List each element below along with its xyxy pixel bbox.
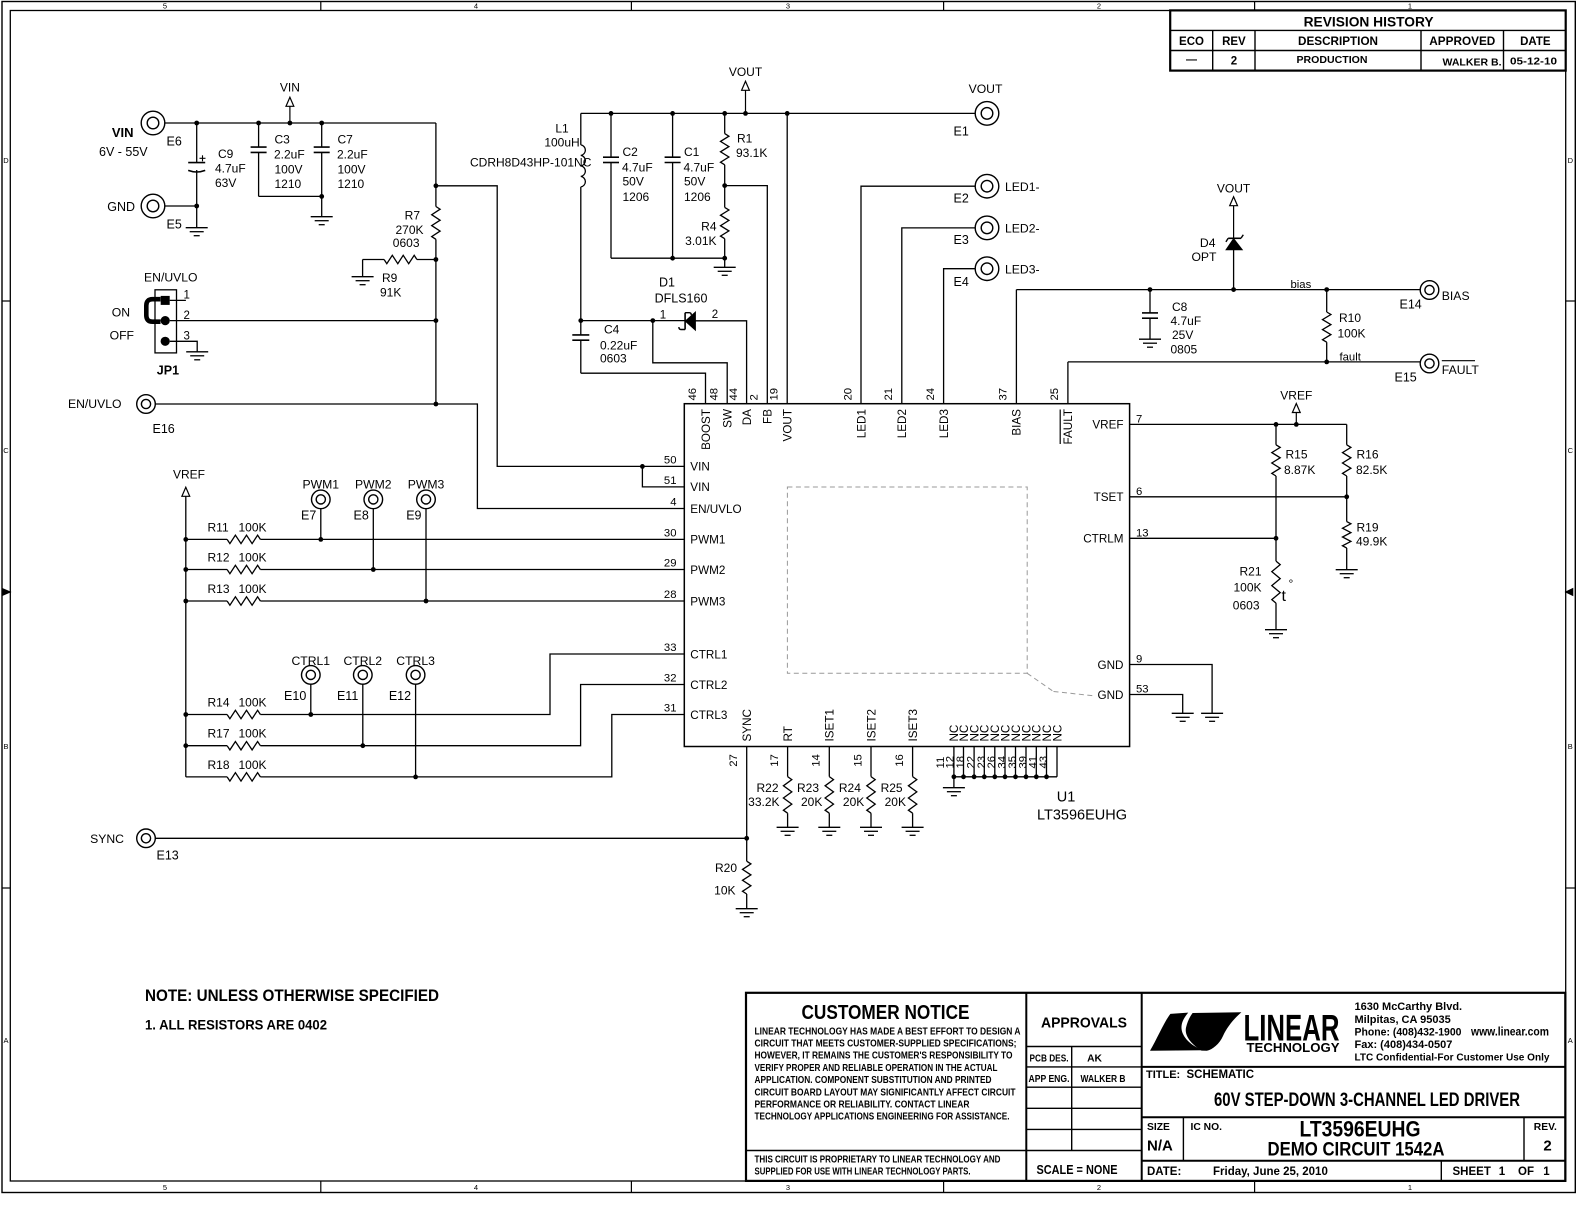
svg-text:—: — — [1186, 54, 1197, 66]
wire CTRL3 row to pin 31 — [260, 715, 684, 777]
svg-text:E1: E1 — [954, 125, 969, 139]
junction dot E10 row — [308, 712, 313, 717]
svg-text:2: 2 — [184, 310, 190, 322]
svg-text:25V: 25V — [1172, 328, 1193, 342]
resistor R23 — [828, 747, 830, 777]
junction dot C9 bottom — [194, 204, 199, 209]
wire E9 drop — [425, 509, 427, 601]
capacitor C3 — [258, 123, 260, 147]
svg-text:GND: GND — [1098, 689, 1124, 702]
resistor R15 — [1275, 424, 1277, 444]
svg-text:43: 43 — [1038, 756, 1050, 769]
svg-text:DA: DA — [741, 409, 754, 425]
junction dot R21 top — [1274, 536, 1279, 541]
terminal E1 VOUT — [975, 102, 999, 126]
svg-text:E13: E13 — [157, 849, 179, 863]
svg-text:R21: R21 — [1239, 565, 1261, 579]
svg-text:EN/UVLO: EN/UVLO — [144, 271, 198, 285]
terminal E16 EN/UVLO — [137, 395, 156, 414]
svg-text:8.87K: 8.87K — [1284, 463, 1315, 477]
wire E4 to pin 24 — [944, 269, 976, 404]
svg-text:VIN: VIN — [690, 461, 709, 474]
svg-text:PRODUCTION: PRODUCTION — [1297, 54, 1368, 66]
revision history table — [1170, 10, 1566, 70]
svg-text:2: 2 — [749, 394, 761, 400]
wire VOUT rail — [581, 112, 975, 114]
svg-text:1: 1 — [1543, 1166, 1550, 1178]
svg-text:R1: R1 — [737, 132, 753, 146]
svg-text:www.linear.com: www.linear.com — [1470, 1026, 1549, 1038]
svg-text:2.2uF: 2.2uF — [337, 148, 368, 162]
junction dot R4 bottom — [722, 256, 727, 261]
wire R9 to ground — [362, 260, 364, 277]
svg-text:LINEAR TECHNOLOGY HAS MADE A B: LINEAR TECHNOLOGY HAS MADE A BEST EFFORT… — [755, 1026, 1021, 1037]
svg-text:CTRLM: CTRLM — [1083, 533, 1123, 546]
power symbol VREF left — [182, 487, 190, 496]
svg-text:1630 McCarthy Blvd.: 1630 McCarthy Blvd. — [1355, 1001, 1463, 1013]
wire GND pin53 — [1130, 695, 1183, 714]
svg-text:0805: 0805 — [1171, 342, 1198, 356]
svg-text:1: 1 — [660, 310, 666, 322]
svg-text:LED2-: LED2- — [1005, 222, 1040, 236]
svg-text:D: D — [3, 156, 9, 165]
svg-text:WALKER B.: WALKER B. — [1443, 56, 1502, 68]
svg-text:1206: 1206 — [684, 190, 711, 204]
svg-text:VOUT: VOUT — [969, 82, 1003, 96]
wire VREF left vertical — [185, 496, 187, 777]
svg-text:0603: 0603 — [393, 236, 420, 250]
resistor R14 — [186, 714, 227, 716]
resistor R10 — [1326, 290, 1328, 312]
inductor L1 — [580, 113, 582, 144]
svg-text:44: 44 — [728, 388, 740, 401]
power symbol VREF right — [1295, 413, 1297, 425]
svg-text:100V: 100V — [338, 163, 366, 177]
svg-text:48: 48 — [709, 388, 721, 401]
svg-text:6V - 55V: 6V - 55V — [99, 145, 148, 159]
svg-text:VREF: VREF — [1092, 419, 1123, 432]
resistor R22 — [787, 747, 789, 777]
svg-text:E7: E7 — [301, 509, 316, 523]
wire VREF pin7 rail — [1130, 423, 1347, 425]
svg-text:2: 2 — [1231, 56, 1237, 68]
svg-text:7: 7 — [1136, 413, 1142, 425]
svg-text:100uH: 100uH — [544, 136, 579, 150]
svg-text:1: 1 — [1408, 1183, 1412, 1192]
svg-text:Phone: (408)432-1900: Phone: (408)432-1900 — [1355, 1026, 1462, 1038]
ground below R4 — [714, 266, 736, 268]
wire E3 to pin 21 — [902, 228, 975, 404]
svg-text:1: 1 — [1408, 2, 1412, 11]
wire CTRL2 row to pin 32 — [260, 685, 684, 746]
svg-text:100K: 100K — [239, 520, 267, 534]
wire C3 bottom to C7 bottom — [259, 195, 322, 197]
svg-text:PWM3: PWM3 — [408, 477, 445, 491]
svg-text:FAULT: FAULT — [1062, 409, 1075, 445]
wire E8 drop — [372, 509, 374, 570]
svg-text:20K: 20K — [801, 795, 822, 809]
svg-text:CDRH8D43HP-101NC: CDRH8D43HP-101NC — [470, 156, 592, 170]
svg-text:SYNC: SYNC — [741, 709, 754, 741]
svg-text:82.5K: 82.5K — [1356, 463, 1387, 477]
svg-text:R14: R14 — [208, 696, 230, 710]
svg-text:APPROVALS: APPROVALS — [1041, 1014, 1127, 1031]
svg-text:NC: NC — [1051, 725, 1064, 742]
svg-text:C8: C8 — [1172, 300, 1188, 314]
diode D4 zener OPT — [1226, 239, 1242, 250]
svg-text:B: B — [3, 742, 8, 751]
wire VIN vertical to EN/UVLO row — [435, 321, 437, 404]
junction dot R10 fault — [1324, 360, 1329, 365]
svg-text:VIN: VIN — [280, 81, 300, 95]
wire JP1 pin1 stub — [170, 299, 186, 301]
svg-text:AK: AK — [1087, 1053, 1102, 1064]
svg-text:Friday, June 25, 2010: Friday, June 25, 2010 — [1213, 1166, 1328, 1178]
svg-text:R23: R23 — [797, 781, 819, 795]
terminal E10 CTRL1 — [302, 666, 321, 685]
wire E11 drop — [362, 684, 364, 746]
svg-text:49.9K: 49.9K — [1356, 534, 1387, 548]
svg-text:33.2K: 33.2K — [748, 795, 779, 809]
svg-text:R9: R9 — [382, 271, 398, 285]
resistor R16 — [1346, 424, 1348, 444]
svg-text:E4: E4 — [954, 275, 969, 289]
svg-text:SW: SW — [722, 409, 735, 428]
approvals box — [1026, 1046, 1141, 1048]
svg-text:15: 15 — [852, 754, 864, 767]
svg-text:CTRL3: CTRL3 — [396, 654, 435, 668]
svg-text:SHEET: SHEET — [1453, 1166, 1491, 1178]
svg-text:TSET: TSET — [1094, 491, 1124, 504]
wire C9 to ground — [196, 206, 198, 228]
svg-text:20K: 20K — [843, 795, 864, 809]
svg-text:APP ENG.: APP ENG. — [1029, 1074, 1070, 1085]
junction dot R7 R9 — [434, 257, 439, 262]
svg-text:GND: GND — [1098, 659, 1124, 672]
resistor R11 — [186, 538, 227, 540]
svg-text:4: 4 — [474, 2, 478, 11]
svg-text:VOUT: VOUT — [1217, 181, 1251, 195]
svg-text:OPT: OPT — [1191, 250, 1217, 264]
terminal E5 GND — [141, 194, 165, 218]
svg-text:C2: C2 — [623, 145, 639, 159]
svg-text:14: 14 — [811, 754, 823, 767]
svg-text:2: 2 — [712, 309, 718, 321]
svg-text:5: 5 — [163, 2, 167, 11]
svg-text:3: 3 — [786, 1183, 790, 1192]
wire VIN vertical to JP1 row — [435, 260, 437, 321]
svg-text:270K: 270K — [395, 223, 423, 237]
svg-text:E15: E15 — [1395, 371, 1417, 385]
terminal E11 CTRL2 — [354, 666, 373, 685]
ground below R23 — [818, 826, 840, 828]
wire E6 to VIN rail — [165, 122, 197, 124]
svg-text:ISET1: ISET1 — [824, 709, 837, 741]
svg-text:VERIFY PROPER AND RELIABLE OPE: VERIFY PROPER AND RELIABLE OPERATION IN … — [755, 1063, 998, 1074]
svg-text:SCALE = NONE: SCALE = NONE — [1037, 1163, 1118, 1177]
svg-text:GND: GND — [107, 200, 135, 214]
title row — [1142, 1116, 1566, 1118]
svg-text:ISET2: ISET2 — [865, 709, 878, 741]
svg-text:B: B — [1568, 742, 1573, 751]
svg-text:E10: E10 — [284, 689, 306, 703]
svg-text:C9: C9 — [218, 147, 234, 161]
junction dot R11 — [183, 537, 188, 542]
junction dot JP1 pin2 EN node — [434, 318, 439, 323]
wire FB node to pin 2 — [725, 186, 768, 404]
svg-text:LT3596EUHG: LT3596EUHG — [1300, 1117, 1421, 1142]
svg-text:BIAS: BIAS — [1442, 289, 1470, 303]
svg-text:Milpitas, CA 95035: Milpitas, CA 95035 — [1355, 1014, 1451, 1026]
terminal E8 PWM2 — [364, 490, 383, 509]
svg-text:CTRL3: CTRL3 — [690, 709, 727, 722]
svg-text:E12: E12 — [389, 689, 411, 703]
svg-text:APPLICATION. COMPONENT SUBSTI: APPLICATION. COMPONENT SUBSTITUTION AND … — [755, 1075, 992, 1086]
terminal E14 BIAS — [1420, 281, 1439, 300]
svg-text:A: A — [3, 1036, 8, 1045]
svg-text:VREF: VREF — [1280, 388, 1312, 402]
svg-text:REVISION HISTORY: REVISION HISTORY — [1304, 15, 1434, 30]
svg-text:CTRL1: CTRL1 — [291, 654, 330, 668]
svg-text:N/A: N/A — [1147, 1138, 1173, 1155]
junction dot E11 row — [360, 743, 365, 748]
svg-text:THIS CIRCUIT IS PROPRIETARY TO: THIS CIRCUIT IS PROPRIETARY TO LINEAR TE… — [755, 1155, 1001, 1166]
svg-text:9: 9 — [1136, 654, 1142, 666]
junction dot C1 top — [670, 111, 675, 116]
wire output cap bottom rail — [611, 257, 725, 259]
svg-text:17: 17 — [769, 754, 781, 767]
node VIN rail corner down — [435, 123, 437, 186]
ground below C9 — [186, 227, 208, 229]
svg-text:E11: E11 — [337, 689, 358, 703]
junction dot C2 top — [609, 111, 614, 116]
power symbol VOUT at D4 — [1233, 206, 1235, 238]
svg-text:13: 13 — [1136, 527, 1149, 539]
svg-text:R4: R4 — [701, 220, 717, 234]
svg-text:DESCRIPTION: DESCRIPTION — [1298, 36, 1378, 48]
svg-text:CTRL2: CTRL2 — [690, 679, 727, 692]
svg-text:SCHEMATIC: SCHEMATIC — [1187, 1069, 1255, 1081]
svg-text:C: C — [3, 446, 9, 455]
svg-text:1210: 1210 — [275, 177, 302, 191]
junction dot D1 pin1 — [650, 318, 655, 323]
resistor R24 — [870, 747, 872, 777]
svg-text:R10: R10 — [1339, 311, 1361, 325]
svg-text:FAULT: FAULT — [1442, 363, 1480, 377]
ground below C8 — [1139, 338, 1161, 340]
resistor R18 — [186, 776, 227, 778]
svg-text:OF: OF — [1518, 1166, 1534, 1178]
svg-text:2.2uF: 2.2uF — [274, 148, 305, 162]
svg-text:C3: C3 — [275, 133, 291, 147]
title block frame — [746, 993, 1565, 1181]
svg-text:PWM2: PWM2 — [690, 564, 725, 577]
svg-text:21: 21 — [883, 388, 895, 401]
svg-text:33: 33 — [664, 642, 677, 654]
ground below JP1 pin3 — [186, 351, 208, 353]
svg-text:SIZE: SIZE — [1147, 1122, 1170, 1133]
svg-text:51: 51 — [664, 475, 677, 487]
svg-text:0603: 0603 — [600, 352, 627, 366]
svg-text:C: C — [1568, 446, 1574, 455]
terminal E6 VIN — [141, 111, 165, 135]
wire TSET pin6 — [1130, 496, 1347, 498]
junction dot EN/UVLO — [434, 402, 439, 407]
svg-text:°: ° — [1289, 577, 1294, 591]
wire PWM2 row to pin 29 — [260, 569, 684, 571]
wire NC bus — [954, 776, 1057, 778]
svg-text:91K: 91K — [380, 286, 401, 300]
svg-text:63V: 63V — [215, 176, 236, 190]
svg-text:28: 28 — [664, 589, 677, 601]
svg-text:VIN: VIN — [112, 125, 134, 140]
svg-text:46: 46 — [687, 388, 699, 401]
svg-text:PERFORMANCE OR RELIABILITY.: PERFORMANCE OR RELIABILITY. CONTACT LINE… — [755, 1100, 970, 1111]
capacitor C9 — [196, 123, 198, 163]
svg-text:R19: R19 — [1357, 520, 1379, 534]
svg-text:IC NO.: IC NO. — [1191, 1122, 1223, 1133]
resistor R25 — [912, 747, 914, 777]
wire E2 to pin 20 — [861, 186, 975, 404]
svg-text:CTRL2: CTRL2 — [343, 654, 382, 668]
svg-text:25: 25 — [1049, 388, 1061, 401]
svg-text:05-12-10: 05-12-10 — [1510, 55, 1557, 67]
svg-text:R25: R25 — [881, 781, 903, 795]
svg-text:Fax: (408)434-0507: Fax: (408)434-0507 — [1355, 1039, 1453, 1051]
svg-text:DFLS160: DFLS160 — [655, 292, 708, 306]
wire D1 pin2 to DA pin 44 — [695, 321, 746, 404]
svg-text:1. ALL RESISTORS ARE 0402: 1. ALL RESISTORS ARE 0402 — [145, 1017, 327, 1033]
svg-text:32: 32 — [664, 673, 677, 685]
svg-text:D: D — [1568, 156, 1574, 165]
svg-text:LTC Confidential-For Customer: LTC Confidential-For Customer Use Only — [1355, 1053, 1550, 1064]
svg-text:10K: 10K — [714, 884, 735, 898]
svg-text:BIAS: BIAS — [1011, 409, 1024, 436]
resistor R4 — [724, 186, 726, 208]
svg-text:E16: E16 — [153, 422, 175, 436]
svg-text:E8: E8 — [354, 509, 369, 523]
junction dot VIN symbol — [288, 121, 293, 126]
svg-text:t: t — [1282, 588, 1287, 605]
ground below R20 — [736, 908, 758, 910]
resistor R19 — [1346, 497, 1348, 522]
wire fault rail — [1068, 361, 1420, 363]
svg-text:93.1K: 93.1K — [736, 146, 767, 160]
svg-text:37: 37 — [998, 388, 1010, 401]
svg-text:PWM3: PWM3 — [690, 595, 725, 608]
wire NC pin stubs — [953, 747, 955, 777]
junction dot E7 drop — [318, 537, 323, 542]
svg-text:FB: FB — [762, 409, 775, 424]
svg-text:24: 24 — [925, 388, 937, 401]
junction dot R14 — [183, 712, 188, 717]
border zone ticks left — [2, 300, 10, 302]
op-amp U1 LT3596EUHG body — [684, 404, 1129, 747]
svg-text:TECHNOLOGY: TECHNOLOGY — [1247, 1040, 1340, 1055]
wire E12 drop — [415, 684, 417, 777]
svg-text:4.7uF: 4.7uF — [215, 162, 246, 176]
resistor R13 — [186, 600, 227, 602]
resistor R7 — [435, 186, 437, 207]
wire fault riser pin 25 — [1067, 362, 1069, 404]
svg-text:VREF: VREF — [173, 468, 205, 482]
svg-text:29: 29 — [664, 558, 677, 570]
svg-text:53: 53 — [1136, 684, 1149, 696]
svg-text:D1: D1 — [659, 276, 675, 290]
junction dot R17 — [183, 743, 188, 748]
svg-text:4: 4 — [474, 1183, 478, 1192]
svg-text:E3: E3 — [954, 233, 969, 247]
terminal E2 LED1- — [975, 174, 999, 198]
svg-text:TECHNOLOGY APPLICATIONS ENGINE: TECHNOLOGY APPLICATIONS ENGINEERING FOR … — [755, 1112, 1010, 1123]
svg-text:R17: R17 — [208, 727, 230, 741]
svg-text:REV.: REV. — [1534, 1122, 1557, 1133]
svg-text:C7: C7 — [338, 133, 354, 147]
svg-text:16: 16 — [894, 754, 906, 767]
svg-text:RT: RT — [782, 726, 795, 741]
wire bias rail — [1016, 289, 1420, 291]
junction dot pin19 riser — [785, 111, 790, 116]
svg-text:TITLE:: TITLE: — [1146, 1069, 1180, 1081]
wire CTRLM pin13 — [1130, 537, 1276, 539]
svg-text:2: 2 — [1097, 1183, 1101, 1192]
junction dot VREF symbol right — [1294, 422, 1299, 427]
wire SYNC riser pin 27 — [746, 747, 748, 839]
svg-text:R24: R24 — [839, 781, 861, 795]
svg-text:100K: 100K — [1338, 327, 1366, 341]
svg-text:R12: R12 — [208, 551, 230, 565]
svg-text:fault: fault — [1340, 351, 1362, 363]
svg-text:100K: 100K — [239, 758, 267, 772]
ground below R24 — [860, 826, 882, 828]
terminal E7 PWM1 — [312, 490, 331, 509]
svg-text:100K: 100K — [239, 551, 267, 565]
svg-text:HOWEVER, IT REMAINS THE CUSTOM: HOWEVER, IT REMAINS THE CUSTOMER'S RESPO… — [755, 1051, 1013, 1062]
resistor R21 thermistor — [1275, 538, 1277, 561]
svg-text:CTRL1: CTRL1 — [690, 648, 727, 661]
svg-text:REV: REV — [1222, 36, 1246, 48]
svg-text:LED2: LED2 — [896, 409, 909, 438]
junction dot R13 — [183, 599, 188, 604]
wire GND pin9 — [1130, 665, 1213, 714]
junction dot VIN divider — [434, 183, 439, 188]
resistor R17 — [186, 745, 227, 747]
capacitor C4 — [580, 321, 582, 335]
border zone ticks right — [1566, 300, 1576, 302]
svg-text:PWM1: PWM1 — [303, 477, 340, 491]
ground below R19 — [1336, 569, 1358, 571]
border center arrow right — [1566, 589, 1573, 596]
U1 FAULT pin overline — [1059, 410, 1061, 445]
terminal E4 LED3- — [975, 257, 999, 281]
wire E16 to junction — [155, 403, 436, 405]
junction dot C7 top — [319, 121, 324, 126]
junction dot D4 — [1231, 287, 1236, 292]
svg-text:100K: 100K — [239, 582, 267, 596]
ground below NC bus — [943, 787, 965, 789]
ground pin9 — [1201, 712, 1223, 714]
svg-text:0.22uF: 0.22uF — [600, 339, 637, 353]
capacitor C7 — [321, 123, 323, 147]
svg-text:E9: E9 — [406, 509, 421, 523]
svg-text:20K: 20K — [885, 795, 906, 809]
svg-text:100V: 100V — [275, 163, 303, 177]
svg-text:ECO: ECO — [1179, 36, 1204, 48]
wire PWM1 row to pin 30 — [260, 538, 684, 540]
U1 exposed pad dashed outline — [787, 487, 1027, 673]
wire to IC pin 51 — [642, 466, 684, 487]
wire pin19 riser — [786, 113, 788, 403]
